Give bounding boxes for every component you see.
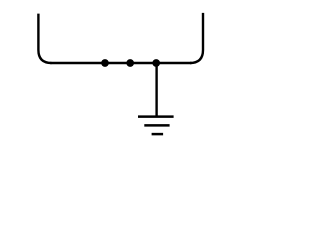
junction node dot 2 — [126, 59, 134, 67]
ground — [138, 117, 174, 135]
junction node dot 1 — [101, 59, 109, 67]
junction node dot 3 — [152, 59, 160, 67]
wire left vertical with corner — [38, 14, 51, 63]
wire ground stem — [155, 63, 157, 117]
wire right vertical with corner — [190, 13, 203, 63]
wire horizontal bus — [50, 62, 191, 64]
